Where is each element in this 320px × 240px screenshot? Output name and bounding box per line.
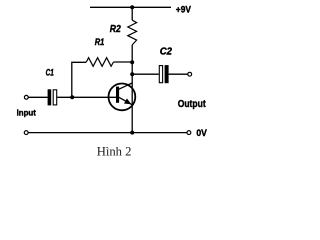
wire R1 right to bus xyxy=(114,61,133,63)
wire input terminal to C1 xyxy=(28,96,47,98)
wire R1 left branch (corner down to base wire) xyxy=(72,62,87,97)
wire from top rail to R2 xyxy=(131,7,133,20)
terminal input xyxy=(24,95,28,99)
transistor Q1 xyxy=(109,83,136,110)
node top rail / R2 junction xyxy=(130,5,134,9)
node R1 junction xyxy=(130,60,134,64)
wire bottom 0V rail xyxy=(28,132,187,134)
capacitor C1 xyxy=(48,89,57,105)
resistor R2 xyxy=(128,20,137,45)
resistor R1 xyxy=(86,58,113,67)
node emitter bus / bottom rail junction xyxy=(130,131,134,135)
wire R2 bottom down to bottom rail (collector/emitter bus) xyxy=(131,45,133,133)
svg-text:+9V: +9V xyxy=(176,4,192,15)
svg-text:Input: Input xyxy=(17,107,36,117)
node C2 junction xyxy=(130,72,134,76)
svg-text:0V: 0V xyxy=(196,128,207,138)
svg-text:Output: Output xyxy=(178,98,206,110)
terminal output xyxy=(188,72,192,76)
capacitor C2 xyxy=(159,65,168,83)
svg-text:Hình 2: Hình 2 xyxy=(97,144,132,159)
wire C2 branch from bus xyxy=(132,73,159,75)
wire top +9V rail xyxy=(90,6,171,8)
svg-text:C1: C1 xyxy=(46,68,54,78)
svg-text:R1: R1 xyxy=(95,37,105,47)
terminal bottom right xyxy=(187,131,191,135)
wire C1 to base xyxy=(57,96,116,98)
svg-text:C2: C2 xyxy=(160,47,173,58)
wire C2 to output terminal xyxy=(169,73,188,75)
node base wire / R1 branch junction xyxy=(70,95,74,99)
svg-text:R2: R2 xyxy=(110,24,121,35)
terminal bottom left xyxy=(24,131,28,135)
